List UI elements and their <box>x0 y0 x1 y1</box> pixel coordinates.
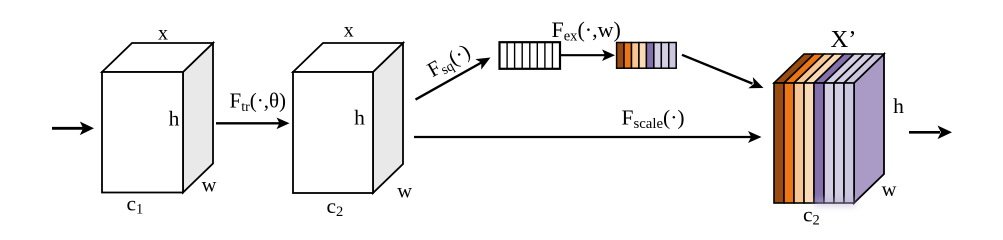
arrow excitation to scaled tensor <box>682 55 766 94</box>
squeeze arrow Fsq <box>416 52 494 99</box>
svg-text:x: x <box>344 20 354 42</box>
svg-text:Ftr(·,θ): Ftr(·,θ) <box>230 89 287 115</box>
svg-text:h: h <box>893 94 904 118</box>
svg-text:Fex(·,w): Fex(·,w) <box>552 17 621 45</box>
top strips <box>774 54 814 83</box>
svg-text:w: w <box>202 175 217 197</box>
right face <box>854 54 884 203</box>
svg-text:X’: X’ <box>831 26 857 53</box>
squeeze vector (1x1xC white cells) <box>500 42 561 69</box>
svg-text:w: w <box>397 181 412 203</box>
cuboid X (input tensor) <box>102 43 213 193</box>
scaled tensor X' (colored cuboid) <box>774 54 884 207</box>
cuboid U (transformed tensor) <box>293 43 403 193</box>
front slices <box>774 83 784 203</box>
scale arrow Fscale <box>414 131 762 143</box>
soft blur under purple slices <box>814 198 856 207</box>
svg-text:h: h <box>169 106 180 130</box>
svg-text:w: w <box>882 179 897 201</box>
transform arrow Ftr <box>216 118 290 130</box>
excitation vector (colored cells) <box>617 43 677 69</box>
input arrow <box>52 122 94 136</box>
svg-text:h: h <box>354 106 365 130</box>
svg-text:x: x <box>158 22 168 44</box>
output arrow <box>909 126 952 140</box>
excitation arrow <box>561 49 616 61</box>
